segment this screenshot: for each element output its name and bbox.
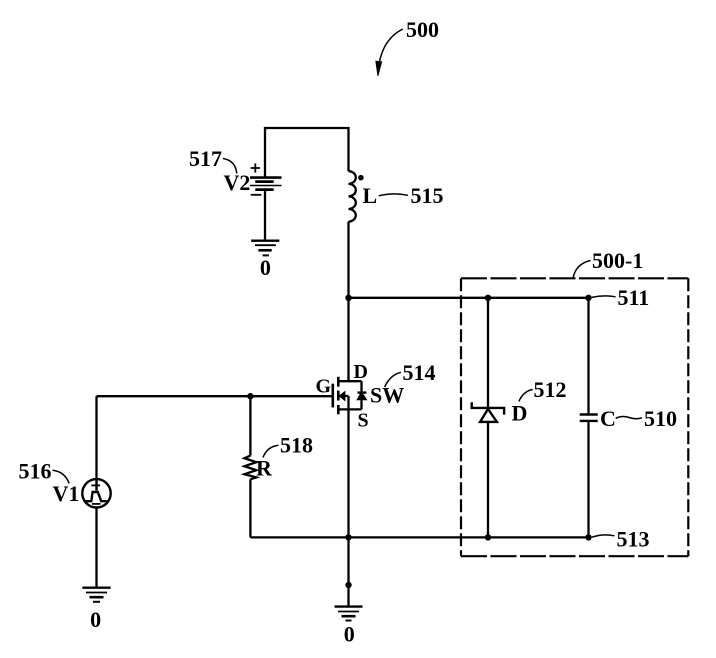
junction dot net 0 — [345, 582, 351, 588]
body vertical to source — [347, 396, 349, 409]
source V1 516 (pulse source) — [82, 479, 110, 507]
capacitor C 510 — [580, 415, 598, 421]
battery plate long top — [250, 176, 282, 179]
plus tick — [91, 484, 100, 486]
junction dot node 513 at capacitor column — [585, 534, 591, 540]
svg-text:513: 513 — [617, 527, 650, 552]
leader 514 — [385, 372, 401, 387]
wire source column to bottom rail — [347, 409, 349, 537]
wire node 511 to capacitor C — [587, 298, 589, 415]
junction dot node 513 at diode column — [485, 534, 491, 540]
svg-text:500: 500 — [406, 17, 439, 42]
channel bar segment body — [337, 391, 340, 401]
svg-text:D: D — [512, 401, 528, 426]
top horizontal — [338, 380, 361, 382]
leader 515 — [379, 194, 408, 196]
svg-text:0: 0 — [260, 255, 271, 280]
svg-text:516: 516 — [19, 459, 52, 484]
svg-text:0: 0 — [90, 607, 101, 632]
resistor R 518 — [245, 456, 257, 480]
channel bar segment drain — [337, 377, 340, 387]
body diode cathode bar — [358, 391, 367, 393]
leader 513 — [592, 535, 615, 537]
wire diode to node 513 — [487, 422, 489, 538]
wire resistor top lead — [249, 396, 251, 455]
battery plate short — [255, 180, 273, 183]
pulse waveform — [86, 492, 108, 501]
wire bottom rail — [250, 536, 588, 538]
body arrow head — [339, 392, 345, 401]
leader 516 — [53, 470, 70, 483]
wire battery to ground — [264, 191, 266, 241]
body arrow line — [339, 395, 348, 397]
leader 511 — [592, 296, 616, 298]
leader 512 — [519, 390, 533, 402]
drain lead into body — [347, 381, 349, 382]
svg-text:L: L — [363, 183, 378, 208]
svg-text:0: 0 — [344, 622, 355, 647]
inductor L 515 — [349, 171, 356, 221]
wire capacitor to node 513 — [587, 421, 589, 538]
svg-text:SW: SW — [370, 383, 404, 408]
wire V1 top lead — [95, 396, 97, 479]
body diode triangle — [358, 393, 366, 400]
wire inductor to node 511 — [347, 222, 349, 298]
junction dot node 511 at drain column — [345, 295, 351, 301]
junction dot node 513 at source column — [345, 534, 351, 540]
plus sign — [251, 163, 260, 172]
dashed box 500-1 — [461, 278, 688, 556]
wire drain column — [347, 298, 349, 381]
wire center ground stub — [347, 537, 349, 606]
svg-text:V1: V1 — [53, 481, 80, 506]
svg-text:511: 511 — [618, 285, 650, 310]
leader 518 — [263, 445, 279, 457]
wire gate rail — [97, 395, 333, 397]
leader 500-1 — [573, 261, 590, 279]
wire resistor bottom lead — [249, 479, 251, 537]
ground center — [335, 607, 363, 621]
wire V1 to ground — [95, 508, 97, 588]
wire top rail — [265, 128, 349, 178]
body diode branch vertical — [360, 381, 362, 409]
svg-text:S: S — [358, 410, 369, 432]
arrow to 500 — [376, 29, 403, 76]
junction dot node 511 at diode column — [485, 295, 491, 301]
svg-text:517: 517 — [189, 146, 222, 171]
battery plate short bottom — [255, 188, 273, 191]
svg-text:V2: V2 — [224, 170, 251, 195]
minus sign — [251, 194, 262, 196]
gate bar — [331, 384, 334, 408]
junction dot gate/resistor — [247, 393, 253, 399]
svg-text:515: 515 — [411, 183, 444, 208]
transistor SW 514 (MOSFET) — [333, 377, 367, 415]
channel bar segment source — [337, 405, 340, 414]
svg-text:R: R — [256, 456, 273, 481]
voltage source V2 (battery) — [250, 163, 282, 240]
svg-text:500-1: 500-1 — [592, 248, 643, 273]
svg-text:D: D — [354, 361, 368, 383]
svg-text:518: 518 — [280, 433, 313, 458]
svg-text:G: G — [316, 376, 332, 398]
wire node 511 to diode D — [487, 298, 489, 408]
leader 510 — [616, 417, 642, 419]
svg-text:512: 512 — [534, 377, 567, 402]
ground V1 — [82, 588, 110, 602]
svg-text:C: C — [600, 406, 616, 431]
wire node 511 rail — [349, 297, 589, 299]
bottom horizontal — [338, 408, 361, 410]
diode D 512 (zener) — [472, 402, 504, 422]
inductor phasing dot — [358, 175, 364, 181]
battery plate long thin — [250, 185, 282, 187]
ground V2 — [251, 241, 279, 256]
junction dot node 511 at capacitor column — [585, 295, 591, 301]
leader 517 — [223, 159, 237, 174]
svg-text:514: 514 — [403, 360, 436, 385]
internal top lead — [95, 479, 97, 490]
minus tick — [92, 503, 101, 505]
svg-text:510: 510 — [644, 406, 677, 431]
